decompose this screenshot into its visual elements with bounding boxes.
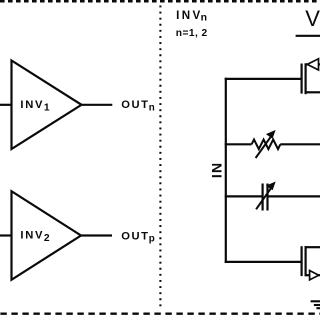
svg-text:INV: INV — [20, 230, 44, 242]
transistor M2 (NMOS) — [302, 246, 320, 280]
capacitor C (variable) — [256, 182, 276, 211]
wire: NMOS gate — [225, 261, 302, 263]
svg-text:OUT: OUT — [121, 230, 149, 242]
wire: INV1 output — [82, 104, 113, 106]
ground — [311, 301, 320, 308]
transistor M1 (PMOS) — [302, 59, 320, 94]
wire: resistor branch right — [280, 143, 320, 145]
wire: PMOS gate — [225, 78, 302, 80]
svg-text:V: V — [305, 6, 320, 31]
block boundary (dashed) top — [0, 0, 320, 3]
block divider (dotted) — [159, 6, 161, 307]
inverter U1 (INV1 triangle) — [12, 61, 82, 150]
svg-text:OUT: OUT — [121, 99, 149, 111]
svg-text:IN: IN — [208, 162, 224, 178]
inverter U2 (INV2 triangle) — [12, 191, 82, 280]
node OUTp label — [121, 230, 155, 244]
wire: INV2 input — [0, 234, 12, 236]
svg-text:1: 1 — [44, 103, 50, 114]
wire: capacitor branch left — [225, 195, 263, 197]
node OUTn label — [121, 99, 155, 114]
svg-text:n=1, 2: n=1, 2 — [176, 28, 208, 39]
wire: capacitor branch right — [268, 195, 320, 197]
wire: resistor branch left — [225, 143, 252, 145]
svg-text:INV: INV — [176, 9, 203, 22]
wire: input vertical bus — [225, 78, 227, 263]
wire: INV1 input — [0, 104, 12, 106]
svg-text:INV: INV — [20, 99, 44, 111]
svg-text:2: 2 — [44, 233, 50, 244]
svg-text:n: n — [149, 103, 155, 114]
resistor R (variable) — [252, 130, 281, 158]
label INV1 — [20, 99, 50, 114]
block boundary (dashed) bottom — [0, 313, 320, 315]
wire: VDD rail — [296, 35, 320, 37]
label INV2 — [20, 230, 50, 245]
svg-text:n: n — [201, 12, 207, 24]
label INVn title — [176, 9, 207, 24]
svg-text:p: p — [149, 233, 155, 244]
wire: INV2 output — [81, 234, 112, 236]
